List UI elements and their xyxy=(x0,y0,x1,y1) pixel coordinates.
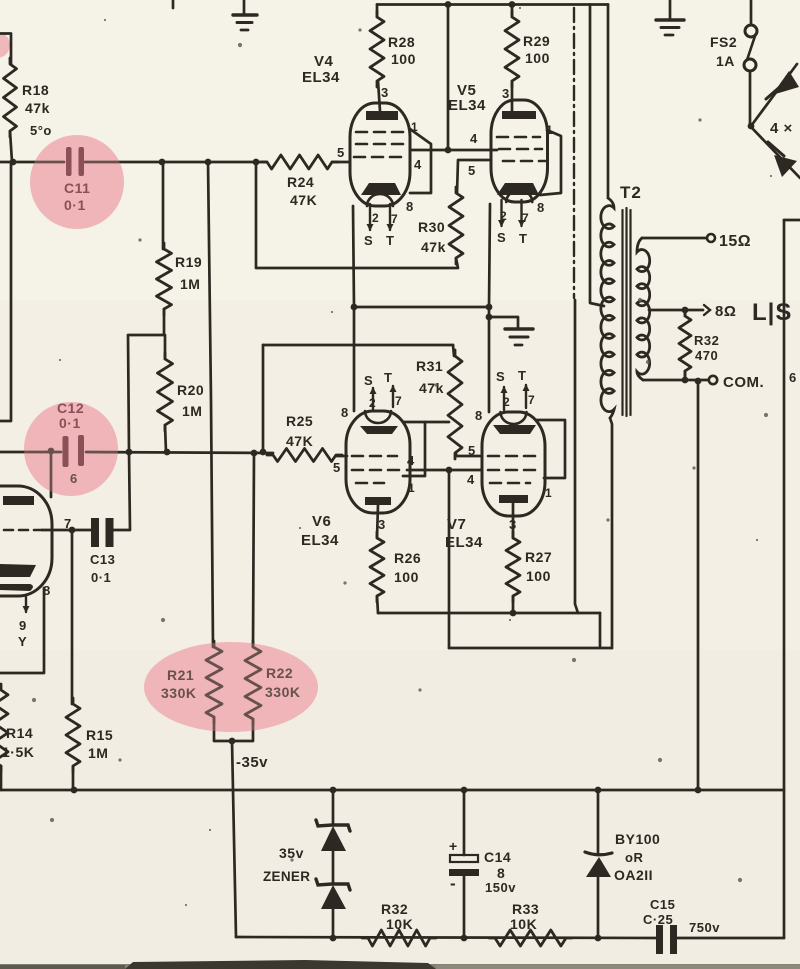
fuse FS2 1A xyxy=(750,0,753,25)
svg-text:-: - xyxy=(450,874,456,893)
transformer T2 primary bottom return xyxy=(610,418,612,648)
V5 pin 2 terminal S xyxy=(500,200,502,226)
wire R24 to V4 pin5 xyxy=(332,161,350,164)
svg-text:R33: R33 xyxy=(512,901,539,917)
svg-text:7: 7 xyxy=(528,393,535,407)
svg-text:4: 4 xyxy=(407,453,415,468)
svg-text:R25: R25 xyxy=(286,413,313,429)
V5 pin 7 terminal T xyxy=(520,200,522,226)
wire R20 top xyxy=(164,335,167,359)
svg-text:2: 2 xyxy=(503,395,510,409)
svg-text:8: 8 xyxy=(537,200,545,215)
capacitor C15 xyxy=(656,925,663,954)
svg-text:T: T xyxy=(518,368,526,383)
wire R26 to rail xyxy=(377,596,378,613)
pentode V7 EL34 xyxy=(482,412,545,516)
svg-text:OA2II: OA2II xyxy=(614,867,653,883)
svg-text:R26: R26 xyxy=(394,550,421,566)
capacitor C12 xyxy=(63,436,69,467)
triode V3 (partial at page edge) xyxy=(0,486,52,596)
V7 pin 7 terminal T xyxy=(525,385,527,408)
svg-text:5: 5 xyxy=(333,460,341,475)
svg-text:47K: 47K xyxy=(290,192,317,208)
svg-text:R15: R15 xyxy=(86,727,113,743)
resistor R27 xyxy=(506,532,520,602)
svg-text:C15: C15 xyxy=(650,897,675,912)
capacitor C11 xyxy=(66,147,72,176)
V7 pin 2 terminal S xyxy=(503,387,505,410)
highlight tint overlay C12 xyxy=(24,402,118,496)
wire R15 bottom xyxy=(72,766,75,790)
wire R22 feed xyxy=(253,453,254,647)
wire R25 to V6 pin5 xyxy=(336,455,347,458)
highlight circle around C12 xyxy=(24,402,118,496)
svg-text:1A: 1A xyxy=(716,53,735,69)
resistor R19 xyxy=(157,243,172,315)
svg-text:R14: R14 xyxy=(6,725,33,741)
svg-text:BY100: BY100 xyxy=(615,831,660,847)
resistor R31 xyxy=(453,345,454,356)
node C13 riser xyxy=(126,449,133,456)
B+ top bus xyxy=(377,3,608,6)
V4 pin 7 terminal T xyxy=(389,204,391,230)
svg-text:oR: oR xyxy=(625,850,643,865)
svg-text:S: S xyxy=(364,373,373,388)
resistor R24 xyxy=(261,155,338,169)
node junction R21 feed xyxy=(205,159,212,166)
wire top-left corner xyxy=(0,34,11,65)
svg-text:S: S xyxy=(497,230,506,245)
wire grid leak R15 riser xyxy=(71,530,74,704)
wire R31 bottom to V7 pin5 xyxy=(456,453,482,456)
wire left anode vertical xyxy=(0,162,11,421)
svg-text:R19: R19 xyxy=(175,254,202,270)
scan bottom edge xyxy=(0,964,800,969)
wire R20 bottom xyxy=(165,425,166,452)
ground symbol cathodes xyxy=(489,317,518,327)
svg-text:R18: R18 xyxy=(22,82,49,98)
resistor R32 10K xyxy=(362,930,436,946)
svg-text:15Ω: 15Ω xyxy=(719,233,751,250)
highlight tint overlay C11 xyxy=(30,135,124,229)
V3 anode bar xyxy=(3,496,34,505)
svg-text:2: 2 xyxy=(369,396,376,410)
node R20 bottom xyxy=(164,449,171,456)
node grid junction xyxy=(445,147,452,154)
svg-text:2: 2 xyxy=(500,209,507,223)
svg-text:5: 5 xyxy=(468,163,476,178)
V4 pin 2 terminal S xyxy=(369,204,371,230)
dash-dot chassis line xyxy=(573,8,575,298)
wire R18 bottom to node xyxy=(10,131,12,162)
bias supply bus xyxy=(236,937,657,938)
V3 grid wire pin 7 xyxy=(42,529,91,532)
svg-text:4: 4 xyxy=(467,472,475,487)
svg-text:5: 5 xyxy=(468,443,476,458)
node V3 anode xyxy=(48,448,55,455)
wire R21 feed xyxy=(208,162,213,647)
svg-text:8: 8 xyxy=(475,408,483,423)
svg-text:T: T xyxy=(386,233,394,248)
highlight circle around C11 xyxy=(30,135,124,229)
svg-text:8Ω: 8Ω xyxy=(715,303,736,320)
V3 anode wire pin 6 xyxy=(50,453,53,497)
wire balance feed from bus xyxy=(447,5,450,151)
svg-text:T: T xyxy=(384,370,392,385)
resistor R28 xyxy=(376,5,379,18)
svg-text:2: 2 xyxy=(372,211,379,225)
terminal 15 ohm xyxy=(707,234,715,242)
svg-text:100: 100 xyxy=(391,51,416,67)
svg-text:10K: 10K xyxy=(510,916,537,932)
terminal 8 ohm arrow xyxy=(704,305,710,315)
resistor R15 xyxy=(66,698,80,772)
resistor R18 xyxy=(4,58,17,137)
svg-text:10K: 10K xyxy=(386,916,413,932)
svg-text:8: 8 xyxy=(497,865,505,881)
wire V4 cathode drop xyxy=(353,206,354,411)
svg-text:T2: T2 xyxy=(620,183,642,202)
svg-text:C·25: C·25 xyxy=(643,912,673,927)
wire shared grid line pins 1/4 xyxy=(412,149,497,152)
svg-text:R30: R30 xyxy=(418,219,445,235)
anode rail 2 xyxy=(449,613,600,648)
svg-text:R27: R27 xyxy=(525,549,552,565)
node junction R19 xyxy=(159,159,166,166)
svg-text:1·5K: 1·5K xyxy=(2,744,34,760)
transformer T2 secondary winding xyxy=(637,238,650,380)
wire V6 bracket to R31 xyxy=(403,421,449,424)
scan speckles xyxy=(519,7,521,9)
zener diode 2 xyxy=(316,879,350,890)
svg-text:EL34: EL34 xyxy=(448,97,486,114)
wire V6 grid line to V7 pin 4 xyxy=(407,469,482,472)
wire R28 to V4 plate pin 3 xyxy=(378,81,380,111)
svg-text:R29: R29 xyxy=(523,33,550,49)
svg-text:4: 4 xyxy=(470,131,478,146)
wire R19 bottom corner xyxy=(128,309,164,452)
V3 grid dashes xyxy=(4,529,42,532)
wire fuse to bridge xyxy=(749,71,752,124)
wire HT centre-tap riser xyxy=(590,5,604,307)
V6 screen bracket xyxy=(403,422,425,476)
svg-text:47k: 47k xyxy=(421,239,446,255)
svg-text:1: 1 xyxy=(545,486,552,500)
ground symbol top right xyxy=(669,0,672,18)
svg-text:R32: R32 xyxy=(381,901,408,917)
svg-text:V6: V6 xyxy=(312,513,331,530)
svg-text:4: 4 xyxy=(414,157,422,172)
svg-text:7: 7 xyxy=(391,212,398,226)
node junction R24/bias rail xyxy=(253,159,260,166)
svg-text:R31: R31 xyxy=(416,358,443,374)
svg-text:T: T xyxy=(519,231,527,246)
svg-text:100: 100 xyxy=(394,569,419,585)
svg-text:S: S xyxy=(496,369,505,384)
zener diode 1 xyxy=(316,820,350,831)
wire -35v drop xyxy=(232,741,236,937)
wire phase link drop xyxy=(448,470,451,648)
svg-text:7: 7 xyxy=(522,211,529,225)
capacitor C13 xyxy=(91,518,99,547)
wire R21/R22 join to -35v xyxy=(214,717,253,741)
wire cathode tie xyxy=(354,306,489,309)
svg-text:C13: C13 xyxy=(90,552,115,567)
svg-text:47K: 47K xyxy=(286,433,313,449)
svg-text:47k: 47k xyxy=(419,380,444,396)
wire screen bus drop to rail xyxy=(575,300,578,613)
svg-text:3: 3 xyxy=(381,85,389,100)
diode bridge lower arm xyxy=(751,127,800,178)
resistor R32 470 xyxy=(684,310,687,316)
node pin7/C13 xyxy=(69,527,76,534)
svg-text:S: S xyxy=(364,233,373,248)
svg-text:+: + xyxy=(449,838,458,854)
svg-text:EL34: EL34 xyxy=(301,532,339,549)
svg-text:8: 8 xyxy=(341,405,349,420)
svg-text:470: 470 xyxy=(695,348,718,363)
resistor R20 xyxy=(158,353,173,431)
V6 pin 2 terminal S xyxy=(372,388,374,409)
svg-text:R28: R28 xyxy=(388,34,415,50)
terminal COM xyxy=(709,376,717,384)
V4 screen bracket xyxy=(410,129,431,193)
svg-text:1: 1 xyxy=(408,481,415,495)
V7 screen bracket xyxy=(536,420,565,478)
ground symbol top middle xyxy=(243,0,246,14)
svg-text:3: 3 xyxy=(378,517,386,532)
svg-text:100: 100 xyxy=(525,50,550,66)
svg-text:V7: V7 xyxy=(447,516,466,533)
diode bridge upper arm xyxy=(751,64,797,126)
highlight ellipse around R21 R22 xyxy=(144,642,318,732)
svg-text:R32: R32 xyxy=(694,333,719,348)
wire 8 ohm tap xyxy=(649,309,703,312)
V3 shield box xyxy=(0,588,44,673)
node R22 feed xyxy=(251,450,258,457)
svg-text:FS2: FS2 xyxy=(710,34,737,50)
wire R30 bottom / cathode rail xyxy=(256,162,458,268)
wire COM tap xyxy=(643,379,708,382)
svg-text:750v: 750v xyxy=(689,920,720,935)
wire screen feed to R31 xyxy=(263,344,453,347)
node R31 feed xyxy=(260,449,267,456)
wire stub top edge xyxy=(172,0,175,8)
svg-text:100: 100 xyxy=(526,568,551,584)
capacitor C14 8uF xyxy=(463,790,466,855)
pentode V4 EL34 xyxy=(350,103,410,206)
transformer T2 primary winding xyxy=(601,198,614,418)
node junction R18/C11 xyxy=(10,159,17,166)
resistor R22 xyxy=(245,641,261,725)
ground bus (0V rail) xyxy=(0,789,784,792)
svg-text:47k: 47k xyxy=(25,100,50,116)
wire COM return drop xyxy=(697,381,700,790)
resistor R26 xyxy=(370,532,384,602)
pentode V5 EL34 xyxy=(491,100,548,202)
transformer T2 core xyxy=(621,210,623,415)
svg-text:8: 8 xyxy=(406,199,414,214)
pentode V6 EL34 xyxy=(346,411,410,513)
svg-text:C14: C14 xyxy=(484,849,511,865)
transformer T2 primary feed xyxy=(607,5,610,199)
resistor R30 xyxy=(449,187,463,264)
svg-text:R20: R20 xyxy=(177,382,204,398)
svg-text:R24: R24 xyxy=(287,174,314,190)
svg-text:5: 5 xyxy=(337,145,345,160)
resistor R29 xyxy=(511,5,514,18)
V3 cathode slab xyxy=(0,564,36,577)
V3 pin 9 arrow xyxy=(25,597,27,612)
V5 screen bracket xyxy=(540,130,561,195)
svg-text:4 ×: 4 × xyxy=(770,120,793,137)
wire C13 to riser xyxy=(114,452,131,530)
svg-text:6: 6 xyxy=(789,370,797,385)
resistor R14 (page edge) xyxy=(0,684,8,772)
zener string 35v xyxy=(332,790,335,824)
wire 15 ohm tap xyxy=(642,237,706,240)
highlight tint overlay R21 R22 xyxy=(144,642,318,732)
svg-text:7: 7 xyxy=(395,394,402,408)
svg-text:3: 3 xyxy=(502,86,510,101)
anode rail 1 xyxy=(378,612,600,615)
diode BY100 / OA211 xyxy=(597,790,600,855)
HT box corner right xyxy=(784,219,800,222)
resistor R21 xyxy=(206,641,222,723)
wire V7 pin3 xyxy=(512,503,515,538)
wire grid bus V4 (C11 line) xyxy=(0,161,64,164)
svg-text:1M: 1M xyxy=(182,403,202,419)
svg-text:COM.: COM. xyxy=(723,374,764,391)
svg-text:V4: V4 xyxy=(314,53,334,70)
wire R19 top xyxy=(162,162,165,249)
svg-text:150v: 150v xyxy=(485,880,516,895)
resistor R33 10K xyxy=(489,930,572,946)
svg-text:ZENER: ZENER xyxy=(263,869,310,884)
svg-text:0·1: 0·1 xyxy=(91,570,111,585)
svg-text:EL34: EL34 xyxy=(445,534,483,551)
wire V5 cathode drop xyxy=(489,204,490,412)
svg-text:9: 9 xyxy=(19,618,27,633)
wire V5 pin5 to R30 xyxy=(457,160,491,193)
svg-text:1M: 1M xyxy=(180,276,200,292)
resistor R25 xyxy=(267,449,342,462)
wire R29 to V5 plate pin 3 xyxy=(511,81,514,111)
partial highlight at left edge xyxy=(0,32,10,58)
svg-text:1M: 1M xyxy=(88,745,108,761)
svg-text:L|S: L|S xyxy=(752,299,792,326)
svg-text:Y: Y xyxy=(18,634,27,649)
svg-text:EL34: EL34 xyxy=(302,69,340,86)
svg-text:-35v: -35v xyxy=(236,754,268,771)
wire V6 pin3 xyxy=(377,505,378,538)
V6 pin 7 terminal T xyxy=(392,386,394,407)
svg-text:5°o: 5°o xyxy=(30,123,52,138)
wire grid bus V6 (C12 line) xyxy=(0,451,61,454)
